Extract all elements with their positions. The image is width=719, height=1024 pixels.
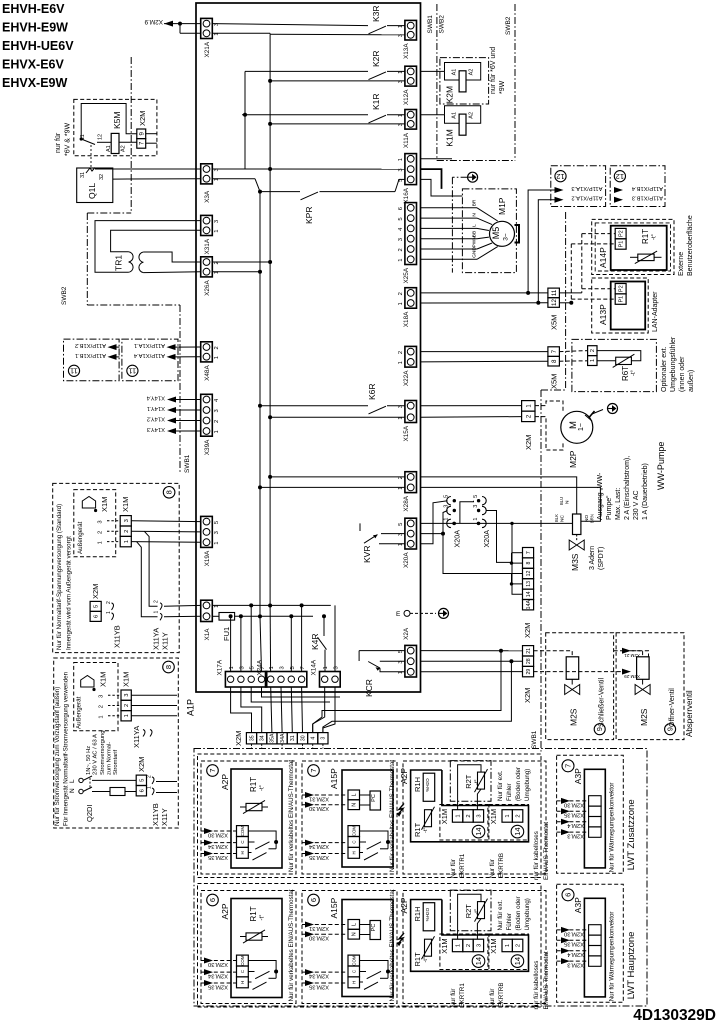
SWB right x565 [565, 212, 567, 390]
svg-text:2: 2 [516, 944, 522, 947]
svg-text:5: 5 [214, 521, 220, 524]
wire X15A.1 [421, 416, 522, 419]
svg-text:H: H [240, 851, 245, 854]
svg-text:EKRTRB: EKRTRB [498, 983, 505, 1008]
bus P2 dashed [582, 233, 615, 235]
box 8 Vorzugstarif [54, 658, 179, 828]
svg-text:A3P: A3P [573, 768, 583, 784]
terminal X5M 7/8 [548, 347, 560, 357]
svg-text:1: 1 [99, 715, 105, 718]
svg-text:X2M.30: X2M.30 [208, 831, 228, 837]
svg-text:BLK: BLK [554, 514, 559, 522]
svg-text:2: 2 [99, 705, 105, 708]
svg-text:*6V & *9W: *6V & *9W [65, 123, 72, 156]
svg-text:PWM: PWM [472, 236, 478, 248]
loop cell3 [323, 661, 512, 732]
svg-text:2: 2 [398, 351, 404, 354]
wire busA to X11A.3 [270, 123, 405, 125]
coil K5M [111, 133, 119, 153]
svg-text:K6R: K6R [367, 383, 377, 400]
svg-text:X2M: X2M [138, 111, 147, 126]
svg-text:BLU: BLU [559, 497, 564, 505]
svg-text:X2M.29: X2M.29 [624, 674, 640, 679]
wire Q1L to X3A.1 [113, 178, 201, 180]
svg-text:1: 1 [106, 611, 112, 614]
svg-text:EHVH-UE6V: EHVH-UE6V [2, 39, 74, 53]
connector X39A [201, 394, 213, 436]
svg-text:X1M: X1M [121, 497, 130, 512]
wire X16A.1 to K1M [421, 158, 453, 160]
svg-text:X2M.4: X2M.4 [566, 951, 584, 957]
svg-text:K5M: K5M [112, 112, 122, 129]
svg-text:14: 14 [513, 957, 522, 965]
svg-text:230 V AC: 230 V AC [633, 490, 640, 520]
svg-text:X5M: X5M [550, 374, 559, 389]
svg-text:-t°: -t° [631, 369, 637, 376]
svg-text:X2M.35: X2M.35 [208, 854, 228, 860]
wire plug2.3 to cells 7/8 [486, 511, 512, 563]
arrow to X2M.9 [164, 23, 201, 25]
svg-text:A11P/X1B.4: A11P/X1B.4 [631, 185, 663, 191]
wire X1A.2 fuse [212, 615, 219, 617]
svg-text:1: 1 [214, 541, 220, 544]
svg-text:M5: M5 [491, 227, 501, 240]
wire X2A.3 to X2M28 [421, 660, 523, 662]
svg-text:SWB1: SWB1 [427, 15, 434, 34]
wires X1M to X19A [131, 520, 200, 523]
svg-text:Nur für Normaltarif-Spannungsv: Nur für Normaltarif-Spannungsversorgung … [56, 504, 63, 650]
svg-text:Absperrventil: Absperrventil [685, 690, 694, 737]
svg-text:X11Y: X11Y [160, 808, 169, 826]
svg-text:P2: P2 [619, 230, 625, 237]
svg-text:3: 3 [321, 737, 327, 740]
svg-text:(Boden oder: (Boden oder [515, 767, 522, 801]
KVR contact [359, 523, 361, 531]
svg-text:A14P: A14P [598, 247, 608, 268]
X2M 5/6 lower [136, 775, 146, 785]
svg-text:X3A: X3A [204, 190, 211, 203]
box 8 Normaltarif [53, 483, 180, 652]
svg-text:X1M: X1M [100, 497, 109, 512]
svg-text:35: 35 [249, 735, 255, 741]
ground symbol top [468, 172, 478, 182]
wire plug1.3 to cell12 [443, 534, 523, 574]
wire cell14 from NC row [512, 523, 523, 594]
svg-text:-t°: -t° [652, 233, 658, 240]
svg-text:6: 6 [309, 898, 318, 902]
svg-text:Stromtarif: Stromtarif [113, 749, 119, 775]
stub X2M9 right [146, 133, 157, 135]
svg-text:A2P: A2P [220, 903, 230, 919]
svg-text:X2M.34: X2M.34 [207, 973, 228, 979]
svg-text:C: C [351, 970, 356, 973]
svg-text:3~: 3~ [503, 233, 510, 241]
svg-text:EIN/AUS-Thermostat: EIN/AUS-Thermostat [543, 822, 550, 880]
connector X15A [405, 401, 417, 423]
svg-text:2: 2 [154, 600, 160, 603]
svg-text:7: 7 [208, 768, 217, 772]
svg-text:35A: 35A [270, 733, 276, 743]
svg-text:6: 6 [563, 893, 572, 897]
svg-text:3: 3 [280, 666, 286, 669]
svg-text:L: L [352, 923, 358, 926]
svg-text:3: 3 [398, 238, 404, 241]
svg-text:1~: 1~ [578, 423, 585, 431]
SWB2 vertical x515 [514, 4, 516, 161]
svg-text:PC: PC [371, 794, 377, 802]
connector X22A [405, 346, 417, 367]
svg-text:LWT Hauptzone: LWT Hauptzone [626, 932, 637, 1000]
stubs strip to container [251, 744, 253, 749]
svg-text:N: N [472, 213, 478, 217]
svg-text:3: 3 [214, 220, 220, 223]
svg-text:LAN-Adapter: LAN-Adapter [652, 291, 659, 332]
svg-text:X2M: X2M [91, 584, 100, 599]
svg-text:3: 3 [476, 944, 482, 947]
svg-text:X2M.31: X2M.31 [309, 925, 329, 931]
svg-text:X2M.3: X2M.3 [567, 833, 584, 839]
svg-text:29: 29 [526, 669, 532, 675]
breaker contact Q1L [86, 168, 95, 174]
svg-text:28: 28 [526, 658, 532, 664]
svg-text:X2M.35: X2M.35 [309, 983, 329, 989]
svg-text:EHVH-E9W: EHVH-E9W [2, 21, 68, 35]
svg-text:11: 11 [551, 289, 558, 296]
box wired thermostat A2P (7) [201, 761, 296, 874]
svg-text:COM: COM [240, 955, 245, 966]
svg-text:5: 5 [473, 495, 479, 498]
svg-text:2: 2 [590, 349, 596, 352]
box thermostat A15P (7) [302, 761, 397, 874]
svg-text:4: 4 [311, 737, 317, 740]
svg-text:2: 2 [106, 601, 112, 604]
svg-text:A11P/X1A.3: A11P/X1A.3 [571, 185, 602, 191]
svg-text:X14A: X14A [311, 659, 318, 675]
svg-text:Externe: Externe [678, 252, 685, 276]
svg-text:-t°: -t° [423, 827, 429, 833]
svg-text:X21A: X21A [204, 41, 211, 57]
connector X2A [405, 645, 417, 677]
terminal X5M 11/12 [548, 288, 560, 298]
svg-text:Nur für ext.: Nur für ext. [497, 900, 504, 931]
terminal X2M 2/1 [522, 401, 535, 412]
svg-text:X17A: X17A [216, 659, 223, 675]
pump M2P [561, 411, 593, 443]
svg-text:6: 6 [398, 207, 404, 210]
svg-text:K2R: K2R [371, 50, 381, 67]
wire X28A.1 busB [258, 485, 262, 489]
svg-text:nur für kabelloses: nur für kabelloses [533, 831, 540, 880]
ground wire [452, 176, 467, 178]
svg-text:12: 12 [526, 571, 532, 577]
connector X14A [320, 672, 341, 688]
svg-text:Öffner-Ventil: Öffner-Ventil [668, 688, 676, 727]
svg-text:5: 5 [290, 666, 296, 669]
wire X28A.2 busA [268, 475, 272, 479]
svg-text:H: H [240, 981, 245, 984]
svg-text:8: 8 [165, 490, 174, 494]
svg-text:SWB2: SWB2 [505, 16, 512, 35]
svg-text:7: 7 [563, 764, 572, 768]
svg-text:EKRTR1: EKRTR1 [459, 983, 466, 1008]
wire 12box to X5M [528, 190, 554, 293]
Aussengeraet lower [74, 663, 118, 731]
wire X28A.1 to M3S NO [421, 487, 601, 521]
svg-text:L: L [352, 793, 358, 796]
svg-text:1: 1 [590, 359, 596, 362]
contactor K1M [421, 114, 445, 116]
wire bus-C to K2R [245, 70, 368, 72]
svg-text:WW-Pumpe: WW-Pumpe [656, 442, 666, 490]
X5M11 stub [559, 292, 581, 294]
ground pump [608, 404, 618, 414]
M3S valve [576, 535, 578, 541]
svg-text:A15P: A15P [329, 768, 339, 789]
svg-text:TR1: TR1 [114, 255, 124, 271]
svg-text:230 V AC / 63 A: 230 V AC / 63 A [93, 734, 99, 775]
svg-text:Nur für ext.: Nur für ext. [497, 770, 504, 801]
svg-text:2: 2 [398, 292, 404, 295]
strip wires [231, 687, 252, 733]
svg-text:C: C [240, 970, 245, 973]
wire X3A.1 to KPR [212, 178, 255, 180]
svg-text:X2M.30: X2M.30 [309, 935, 329, 941]
svg-text:nur für *6V und: nur für *6V und [490, 47, 497, 94]
svg-text:M2S: M2S [569, 708, 579, 726]
relay contact K2R [369, 72, 387, 80]
svg-text:KCR: KCR [364, 679, 374, 697]
svg-text:X2M.30: X2M.30 [309, 805, 329, 811]
svg-text:1: 1 [456, 944, 462, 947]
breaker Q2DI [79, 778, 83, 782]
connector X12A [405, 66, 417, 86]
svg-text:1: 1 [398, 361, 404, 364]
wire X16A.3 to motor [421, 169, 442, 189]
svg-text:21: 21 [526, 648, 532, 654]
svg-text:R1H: R1H [413, 777, 422, 792]
svg-text:6: 6 [139, 789, 145, 792]
svg-text:EHVX-E9W: EHVX-E9W [2, 76, 67, 90]
wire X21A.3 to K3R [212, 24, 368, 26]
svg-text:Außengerät: Außengerät [76, 696, 83, 729]
svg-text:9: 9 [595, 727, 604, 731]
svg-text:X14Y.1: X14Y.1 [147, 405, 165, 411]
relay K5M wiring [81, 104, 137, 140]
svg-text:A2P: A2P [399, 897, 409, 913]
svg-text:2: 2 [516, 814, 522, 817]
svg-text:Umgebung): Umgebung) [524, 769, 531, 801]
svg-text:Optionaler ext.: Optionaler ext. [661, 346, 668, 392]
wire coil to X2M.7 [119, 141, 137, 143]
wire L1 row [212, 604, 330, 606]
svg-text:1: 1 [505, 944, 511, 947]
svg-text:Für Innengerät Normaltarif-Str: Für Innengerät Normaltarif-Stromversorgu… [63, 671, 70, 826]
svg-text:X2M.35: X2M.35 [564, 812, 584, 818]
svg-text:A2: A2 [121, 145, 127, 152]
svg-text:5: 5 [250, 666, 256, 669]
svg-text:1: 1 [269, 666, 275, 669]
svg-text:-t°: -t° [423, 957, 429, 963]
pump dashed enclosure [535, 401, 563, 412]
svg-text:2: 2 [124, 530, 130, 533]
svg-text:X2M.30: X2M.30 [564, 930, 584, 936]
svg-text:X2M.31: X2M.31 [309, 795, 329, 801]
svg-text:1: 1 [214, 430, 220, 433]
svg-text:X14Y.3: X14Y.3 [147, 426, 165, 432]
svg-text:1: 1 [214, 230, 220, 233]
svg-text:PC: PC [371, 924, 377, 932]
svg-text:GND: GND [472, 247, 478, 258]
claws lower2 [152, 777, 154, 784]
svg-text:3: 3 [124, 519, 130, 522]
wire X26A.1 to busB [212, 271, 260, 273]
wire X18A.2 [421, 292, 548, 294]
mech link K5M-Q1L [90, 145, 92, 167]
relay contact K3R [369, 26, 387, 34]
svg-text:X1A: X1A [204, 628, 211, 641]
svg-text:N: N [69, 788, 76, 793]
KCR contact [368, 662, 380, 669]
svg-text:14: 14 [513, 827, 522, 835]
svg-text:34: 34 [260, 735, 266, 741]
wire X2A.5 to X2M21 [421, 650, 523, 652]
connector X11A [405, 110, 417, 130]
svg-text:8: 8 [551, 359, 558, 363]
svg-text:1: 1 [98, 541, 104, 544]
svg-text:R1T: R1T [413, 822, 422, 837]
wire X22A.2 [421, 351, 548, 353]
svg-text:X2M: X2M [524, 435, 533, 450]
arrows X14Y outputs [176, 399, 201, 401]
svg-text:5: 5 [398, 523, 404, 526]
svg-text:NC: NC [560, 515, 566, 522]
main PCB A1P [196, 3, 421, 692]
svg-text:nur für: nur für [55, 132, 62, 153]
K4R contact [323, 616, 325, 636]
K6R contact [369, 406, 387, 414]
svg-text:Max. Last:: Max. Last: [615, 488, 622, 520]
svg-text:12: 12 [556, 172, 564, 181]
svg-text:P2: P2 [619, 285, 625, 292]
svg-text:A11P/X1A.4: A11P/X1A.4 [133, 352, 165, 358]
svg-text:A1P: A1P [186, 699, 196, 716]
svg-text:X26A: X26A [204, 280, 211, 296]
svg-text:A2: A2 [469, 112, 475, 119]
connector X20A [405, 518, 417, 549]
svg-text:Nur für verkabeltes EIN/AUS-Th: Nur für verkabeltes EIN/AUS-Thermostat [389, 760, 396, 872]
svg-text:Nur für: Nur für [450, 859, 457, 878]
svg-text:8: 8 [164, 665, 173, 669]
svg-text:A11P/X1B.3: A11P/X1B.3 [632, 195, 663, 201]
box A3P Zusatzzone [557, 755, 624, 873]
svg-text:EHVH-E6V: EHVH-E6V [2, 2, 65, 16]
svg-text:Innengerät wird vom Außengerät: Innengerät wird vom Außengerät versorgt [66, 536, 73, 650]
svg-text:2: 2 [214, 346, 220, 349]
svg-text:X11A: X11A [403, 132, 410, 148]
wires A13P to bus [582, 288, 615, 290]
svg-text:X2A: X2A [403, 627, 410, 640]
svg-text:A11P/X1B.2: A11P/X1B.2 [75, 342, 106, 348]
svg-text:X2M.34: X2M.34 [308, 973, 329, 979]
svg-text:X15A: X15A [403, 425, 410, 441]
svg-text:7: 7 [309, 768, 318, 772]
svg-text:EKRTRB: EKRTRB [498, 853, 505, 878]
motor M5 3~ [490, 221, 515, 246]
svg-text:X5M: X5M [550, 315, 559, 330]
svg-text:nur für kabelloses: nur für kabelloses [533, 961, 540, 1010]
claws lower [143, 730, 145, 737]
wires X48A to 11-boxes [117, 346, 120, 348]
loop cell4 [313, 651, 501, 733]
svg-text:5: 5 [444, 495, 450, 498]
box M2S Oeffner [616, 633, 684, 740]
wires lower right [156, 781, 177, 783]
bus A vertical [269, 34, 271, 606]
plug X20A b [477, 499, 480, 502]
svg-text:1: 1 [124, 714, 130, 717]
wire busA X15A.1 [268, 415, 272, 419]
svg-text:X14Y.2: X14Y.2 [147, 415, 165, 421]
svg-text:X1M: X1M [489, 809, 498, 824]
connector X13A [405, 20, 417, 40]
svg-text:2: 2 [124, 704, 130, 707]
fuse FU1 [219, 613, 235, 621]
connector X31A [201, 215, 213, 235]
X5M12 stub [559, 302, 571, 304]
svg-text:1: 1 [444, 518, 450, 521]
svg-text:1: 1 [398, 302, 404, 305]
svg-text:4D130329D: 4D130329D [633, 1007, 716, 1024]
svg-text:KPR: KPR [304, 207, 314, 224]
svg-text:SWB1: SWB1 [531, 730, 538, 749]
connector X25A [405, 203, 417, 265]
svg-text:(innen oder: (innen oder [679, 356, 686, 392]
X1M cells upper [120, 516, 131, 526]
svg-text:X48A: X48A [204, 365, 211, 381]
svg-text:K2M: K2M [445, 86, 455, 103]
SWB1 dashdot [540, 390, 542, 752]
svg-text:außen): außen) [688, 370, 695, 392]
bus C vertical [244, 71, 246, 169]
wire claw to X1A [164, 604, 201, 607]
svg-text:A15P: A15P [329, 897, 339, 918]
svg-text:A2P: A2P [220, 774, 230, 790]
wires X5M to R6T [559, 351, 587, 352]
svg-text:2: 2 [147, 775, 153, 778]
svg-text:2: 2 [466, 814, 472, 817]
connector X18A [405, 288, 417, 309]
M1P enclosure [462, 189, 516, 273]
svg-text:A1: A1 [106, 145, 112, 152]
SWB2 boundary left [130, 57, 132, 213]
svg-text:A11P/X1B.1: A11P/X1B.1 [75, 352, 106, 358]
connector X24A [266, 672, 307, 688]
KCR hook [359, 650, 405, 652]
svg-text:X11YA: X11YA [152, 628, 161, 650]
row 7 dashed box [198, 754, 542, 878]
relay contact KPR [301, 192, 319, 200]
svg-text:L: L [472, 224, 478, 227]
svg-text:12: 12 [616, 172, 624, 181]
bus P1 dashed [571, 243, 615, 245]
svg-text:1: 1 [473, 518, 479, 521]
box Q1L [77, 168, 113, 203]
svg-text:M3S: M3S [570, 553, 580, 571]
wire X20A.1 loop to plug1.5 [421, 501, 448, 544]
svg-text:BR: BR [472, 199, 478, 206]
svg-text:X11YB: X11YB [113, 625, 122, 648]
svg-text:3: 3 [476, 814, 482, 817]
